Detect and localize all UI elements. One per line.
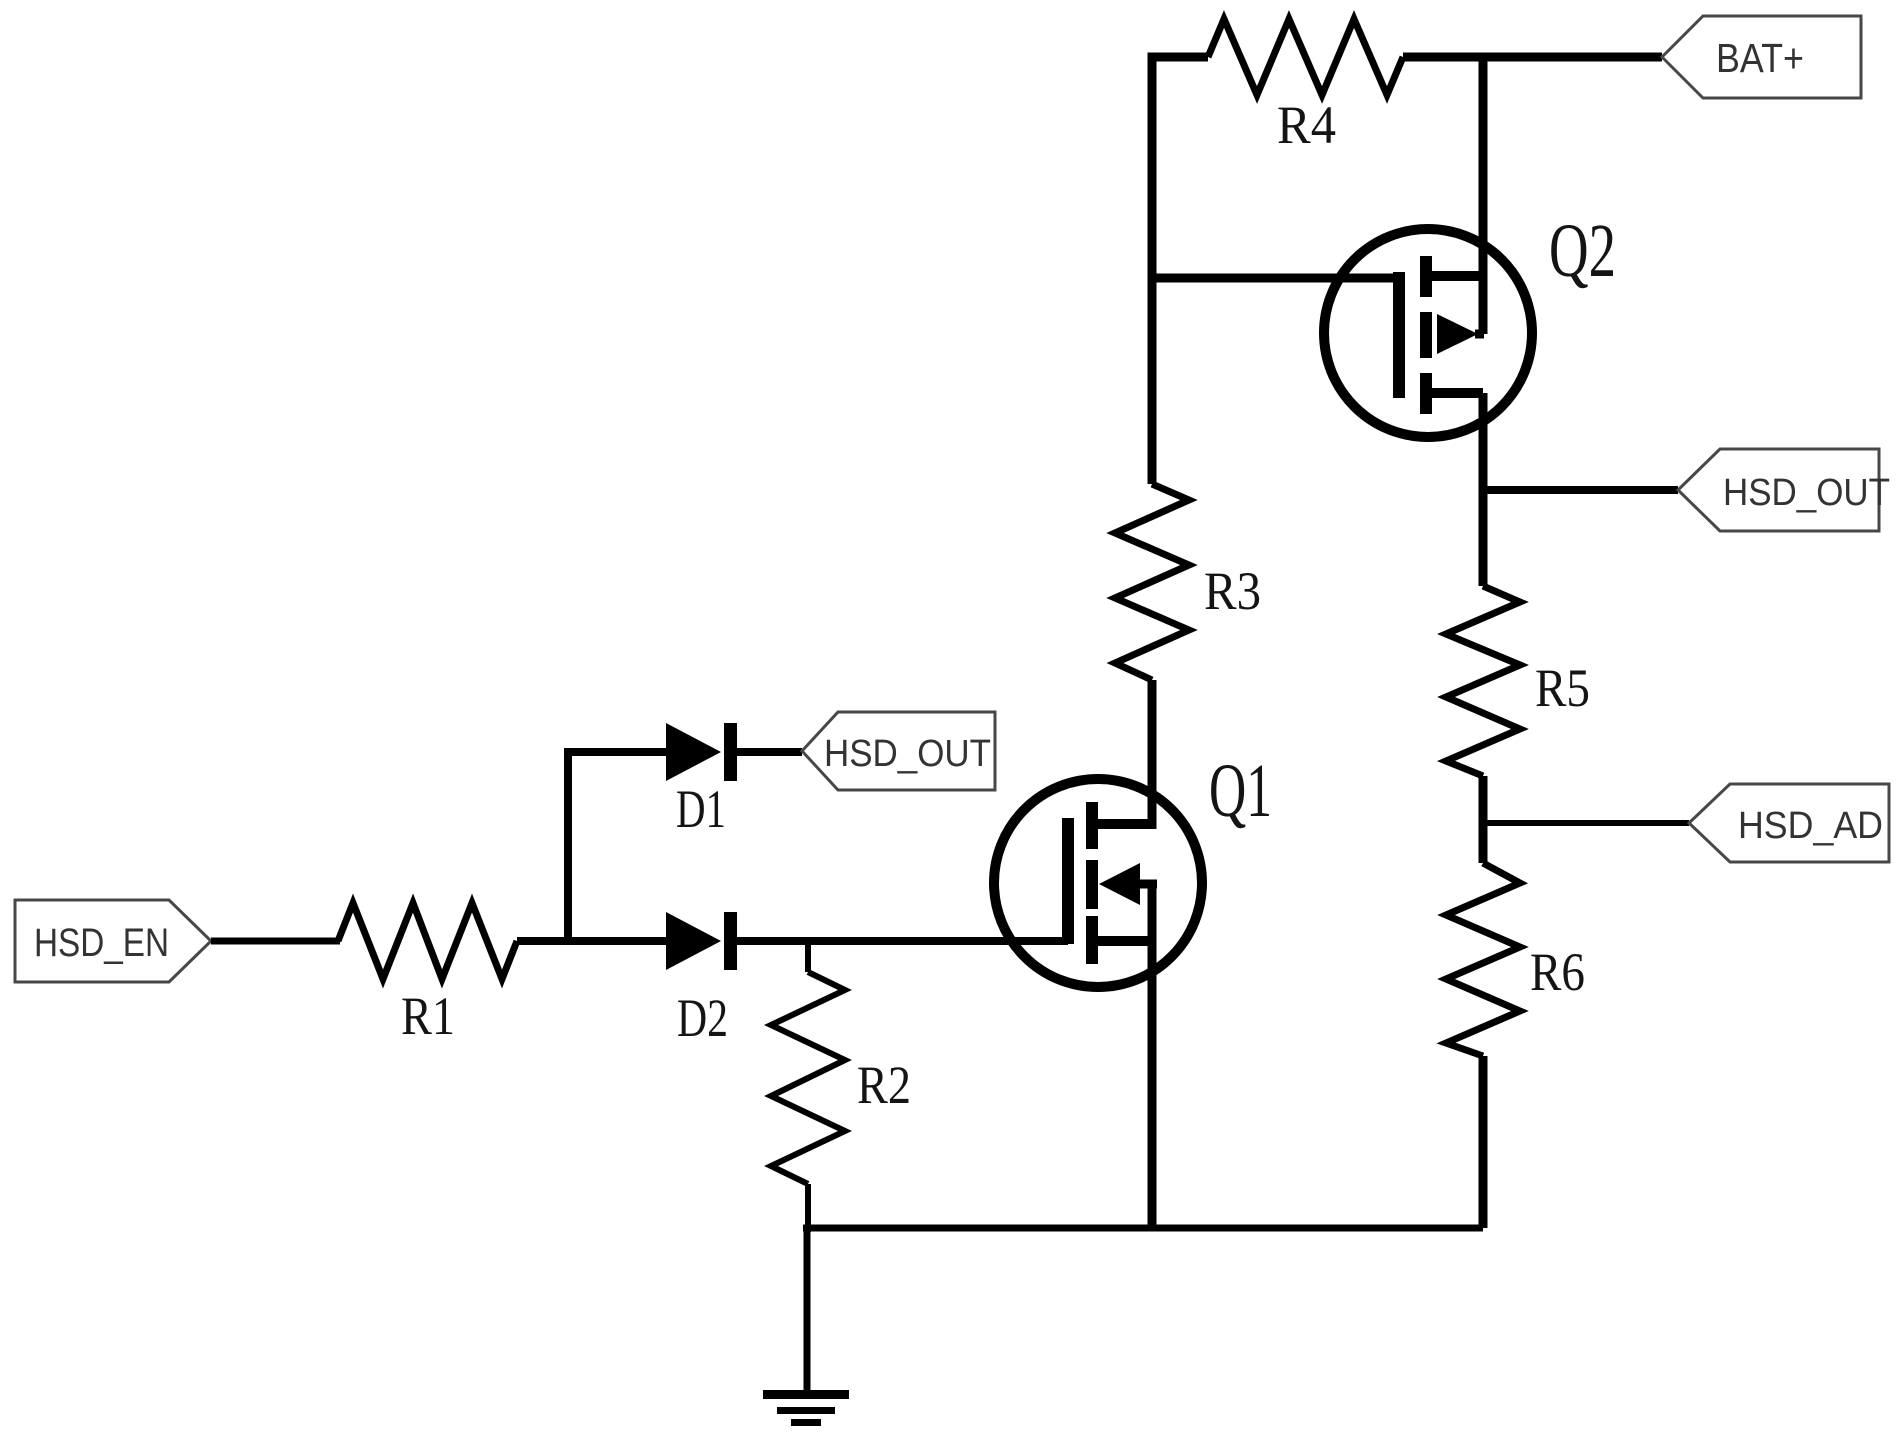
- wire HSD_AD tap: [1483, 820, 1689, 826]
- port flag HSD_AD: [1689, 784, 1889, 862]
- svg-text:R4: R4: [1277, 95, 1336, 155]
- wire HSD_EN to R1: [211, 938, 340, 945]
- svg-text:Q1: Q1: [1209, 749, 1272, 833]
- wire Q2 drain from top rail: [1479, 57, 1488, 334]
- wire R2 bottom lead: [805, 1184, 811, 1232]
- svg-text:BAT+: BAT+: [1716, 35, 1804, 81]
- wire Q2 gate from left rail: [1152, 274, 1399, 283]
- svg-text:HSD_EN: HSD_EN: [34, 921, 169, 965]
- svg-text:R6: R6: [1530, 942, 1585, 1002]
- transistor Q1: [994, 749, 1272, 987]
- svg-text:Q2: Q2: [1549, 209, 1616, 293]
- svg-text:R2: R2: [857, 1055, 911, 1115]
- wire D2 cathode to Q1 gate: [737, 937, 1068, 945]
- ground: [763, 1390, 849, 1426]
- svg-text:HSD_OUT: HSD_OUT: [1723, 472, 1890, 514]
- diode D1: [666, 723, 737, 839]
- wire R1 to D2 anode: [517, 937, 666, 945]
- wire down to ground: [804, 1228, 811, 1390]
- resistor R2: [771, 972, 911, 1184]
- resistor R4: [1208, 19, 1403, 155]
- diode D2: [666, 912, 737, 1048]
- wire bottom rail: [803, 1225, 1483, 1232]
- resistor R5: [1446, 586, 1590, 776]
- wire top rail R4 to BAT+: [1403, 53, 1662, 62]
- port flag HSD_OUT (anti-parallel branch): [802, 712, 995, 790]
- wire R5 to R6: [1479, 776, 1488, 863]
- svg-text:HSD_AD: HSD_AD: [1738, 805, 1883, 847]
- svg-text:D2: D2: [677, 988, 728, 1048]
- wire R2 top lead: [805, 941, 811, 972]
- wire Q1 drain up to R3: [1148, 680, 1157, 829]
- wire D1 cathode to HSD_OUT flag: [737, 748, 802, 756]
- svg-text:R1: R1: [401, 986, 455, 1046]
- port flag HSD_OUT (output): [1678, 449, 1890, 531]
- wire left vertical rail from top corner to R3: [1152, 57, 1208, 484]
- port flag BAT+: [1662, 16, 1861, 98]
- svg-text:R3: R3: [1204, 561, 1261, 621]
- wire HSD_OUT tap: [1483, 486, 1678, 494]
- wire R6 down to bottom rail: [1479, 1056, 1488, 1228]
- resistor R3: [1115, 484, 1261, 680]
- transistor Q2: [1324, 209, 1616, 437]
- wire Q1 source down to bottom rail: [1148, 884, 1157, 1228]
- svg-text:HSD_OUT: HSD_OUT: [824, 733, 991, 775]
- svg-text:D1: D1: [676, 779, 726, 839]
- resistor R6: [1446, 863, 1585, 1056]
- resistor R1: [338, 903, 517, 1046]
- svg-text:R5: R5: [1535, 658, 1590, 718]
- wire Q2 source to R5: [1479, 393, 1488, 586]
- port flag HSD_EN: [15, 900, 211, 982]
- wire branch up to D1: [568, 752, 666, 941]
